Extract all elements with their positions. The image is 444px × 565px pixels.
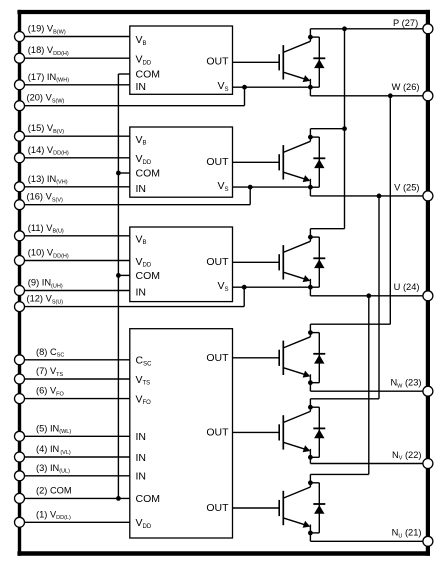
svg-text:COM: COM <box>136 270 161 282</box>
wire collector V high-side <box>310 126 347 131</box>
transistor Q5 (V low-side) with freewheel diode D5 <box>233 399 326 460</box>
wire from pin (8) into circuit <box>20 359 130 361</box>
wire from pin (19) into circuit <box>20 36 130 38</box>
wire VS row driver 2 <box>233 186 311 188</box>
wire P rail top <box>310 26 428 31</box>
wire from pin (16) into circuit <box>20 204 251 206</box>
wire from pin (9) into circuit <box>20 290 130 292</box>
wire from pin (4) into circuit <box>20 456 130 458</box>
pin (1) VDD(L) <box>15 509 71 527</box>
svg-text:IN: IN <box>136 431 147 443</box>
pin (4) IN (VL) <box>15 444 71 462</box>
pin (20) VS(W) <box>15 93 65 111</box>
pin (19) VB(W) <box>15 24 66 42</box>
transistor Q3 (U high-side) with freewheel diode D3 <box>233 229 326 290</box>
svg-text:W (26): W (26) <box>392 82 420 92</box>
svg-text:OUT: OUT <box>206 56 229 68</box>
pin (6) VFO <box>15 386 65 404</box>
svg-text:IN: IN <box>136 287 147 299</box>
wire from pin (13) into circuit <box>20 186 130 188</box>
transistor Q6 (U low-side) with freewheel diode D6 <box>233 474 326 535</box>
wire from pin (7) into circuit <box>20 378 130 380</box>
svg-text:OUT: OUT <box>206 156 229 168</box>
wire VS row driver 3 <box>233 286 311 288</box>
pin W (26) <box>392 82 433 101</box>
wire VS return loop driver 1 <box>242 85 247 106</box>
wire from pin (10) into circuit <box>20 260 130 262</box>
wire NV output <box>310 457 428 463</box>
wire from pin (2) into circuit <box>20 497 130 499</box>
pin (14) VDD(H) <box>15 145 69 163</box>
pin (8) CSC <box>15 347 65 365</box>
IC U4 LVIC low-side gate driver and protection block <box>130 329 233 538</box>
svg-text:P (27): P (27) <box>393 18 418 28</box>
pin NU (21) <box>392 528 433 547</box>
svg-text:V (25): V (25) <box>394 182 419 192</box>
svg-text:U (24): U (24) <box>394 282 420 292</box>
svg-text:IN: IN <box>136 183 147 195</box>
wire from pin (1) into circuit <box>20 521 130 523</box>
wire VS row driver 1 <box>233 86 311 88</box>
wire from pin (6) into circuit <box>20 398 130 400</box>
pin P (27) <box>393 18 433 34</box>
wire VS return loop driver 2 <box>248 185 253 205</box>
pin (15) VB(V) <box>15 123 65 141</box>
pin (2) COM <box>15 485 72 503</box>
pin U (24) <box>394 282 433 301</box>
pin (5) IN(WL) <box>15 423 72 441</box>
transistor Q4 (W low-side) with freewheel diode D4 <box>233 324 326 385</box>
wire NU output <box>310 533 428 541</box>
pin (3) IN(UL) <box>15 463 71 481</box>
IC U3 HVIC high-side gate driver block <box>130 227 233 302</box>
svg-text:OUT: OUT <box>206 352 229 364</box>
wire from pin (18) into circuit <box>20 57 130 59</box>
wire from pin (17) into circuit <box>20 84 130 86</box>
wire P rail vertical <box>344 29 346 229</box>
svg-text:OUT: OUT <box>206 427 229 439</box>
IC U1 HVIC high-side gate driver block <box>130 26 233 94</box>
pin (10) VDD(H) <box>15 248 69 266</box>
pin NW (23) <box>390 378 432 397</box>
pin (11) VB(U) <box>15 223 64 241</box>
svg-text:OUT: OUT <box>206 256 229 268</box>
wire from pin (20) into circuit <box>20 105 245 107</box>
wire U phase output <box>310 287 428 298</box>
pin (17) IN(WH) <box>15 72 70 90</box>
pin (18) VDD(H) <box>15 45 69 63</box>
wire collector U high-side <box>310 228 344 230</box>
svg-text:IN: IN <box>136 81 147 93</box>
transistor Q2 (V high-side) with freewheel diode D2 <box>233 129 326 190</box>
svg-text:COM: COM <box>136 493 161 505</box>
wire from pin (14) into circuit <box>20 157 130 159</box>
wire from pin (11) into circuit <box>20 235 130 237</box>
pin (7) VTS <box>15 366 64 384</box>
IC U2 HVIC high-side gate driver block <box>130 127 233 197</box>
pin NV (22) <box>392 450 433 469</box>
pin V (25) <box>394 182 433 201</box>
svg-text:(2) COM: (2) COM <box>36 485 72 495</box>
wire VS return loop driver 3 <box>242 285 247 307</box>
wire from pin (5) into circuit <box>20 435 130 437</box>
transistor Q1 (W high-side) with freewheel diode D1 <box>233 29 326 90</box>
svg-text:OUT: OUT <box>206 502 229 514</box>
wire W feed to Q4 collector <box>310 96 390 324</box>
wire NW output <box>310 383 428 392</box>
wire W phase output <box>310 87 428 98</box>
wire from pin (12) into circuit <box>20 306 245 308</box>
wire from pin (15) into circuit <box>20 135 130 137</box>
svg-text:IN: IN <box>136 471 147 483</box>
pin (9) IN(UH) <box>15 278 63 296</box>
svg-text:COM: COM <box>136 167 161 179</box>
wire COM bus vertical <box>116 74 130 501</box>
pin (12) VS(U) <box>15 294 64 312</box>
wire V feed to Q5 collector <box>310 196 379 399</box>
wire V phase output <box>310 187 428 198</box>
svg-text:IN: IN <box>136 452 147 464</box>
pin (13) IN(VH) <box>15 174 68 192</box>
svg-text:COM: COM <box>136 68 161 80</box>
pin (16) VS(V) <box>15 192 63 210</box>
wire from pin (3) into circuit <box>20 475 130 477</box>
wire U feed to Q6 collector <box>310 296 368 475</box>
